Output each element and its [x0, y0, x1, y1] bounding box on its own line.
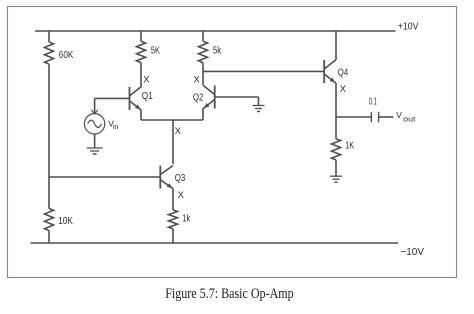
svg-text:Q3: Q3 — [175, 173, 186, 184]
resistor 1k — [169, 210, 191, 229]
resistor 60K — [45, 42, 74, 64]
caption Figure 5.7: Basic Op-Amp — [165, 286, 294, 302]
label 0.1 value of capacitor — [369, 96, 377, 107]
svg-text:5k: 5k — [213, 46, 221, 57]
svg-text:Figure 5.7: Basic Op-Amp: Figure 5.7: Basic Op-Amp — [165, 286, 294, 302]
label Q4 — [338, 68, 349, 79]
wire 5K to Q1 collector — [140, 63, 142, 87]
label Q2 — [193, 92, 204, 103]
wire capacitor to Vout — [379, 116, 394, 118]
svg-text:+10V: +10V — [398, 21, 419, 32]
svg-text:0.1: 0.1 — [369, 96, 377, 107]
transistor Q3 — [160, 166, 173, 189]
ground below Vin — [87, 148, 103, 154]
svg-text:1k: 1k — [182, 213, 190, 224]
svg-text:in: in — [113, 122, 119, 131]
wire Vin to Q1 base — [95, 98, 130, 113]
label Q1 — [142, 91, 153, 102]
wire Q2 base to ground — [215, 97, 259, 106]
ground below 1K — [330, 176, 342, 182]
wire joining Q1 and Q2 emitters — [141, 119, 203, 121]
svg-text:X: X — [193, 74, 200, 85]
node -10V label — [400, 247, 424, 258]
transistor Q2 — [203, 85, 215, 108]
wire from 60K down to 10K with junction to Q3 base — [48, 64, 50, 209]
svg-text:out: out — [403, 114, 415, 123]
wire Q2 emitter down — [202, 108, 204, 120]
label Vout — [396, 110, 415, 124]
transistor Q1 — [130, 87, 142, 110]
wire Q4 emitter node to capacitor — [336, 116, 371, 118]
arrow into source Vin — [91, 110, 97, 114]
ground at Q2 base — [253, 106, 265, 112]
node X at Q2 collector — [193, 74, 200, 85]
label Vin — [108, 118, 118, 131]
resistor 5K — [137, 41, 161, 62]
svg-text:60K: 60K — [59, 50, 74, 61]
svg-text:X: X — [178, 190, 185, 201]
wire 5k/Q2 collector node to Q4 base — [203, 70, 324, 72]
resistor 10K — [45, 209, 74, 231]
wire Q4 emitter down to 1K with junction to output — [335, 83, 337, 139]
node X at Q4 emitter — [340, 84, 347, 95]
wire from +10V rail down to resistor 60K — [48, 31, 50, 42]
wire Q3 emitter to 1k — [172, 189, 174, 210]
svg-text:V: V — [396, 110, 402, 120]
wire +10V rail to resistor 5K — [140, 31, 142, 41]
wire 1k to -10V rail — [172, 229, 174, 243]
wire 10K to -10V rail — [48, 231, 50, 244]
svg-text:X: X — [340, 84, 347, 95]
svg-text:1K: 1K — [345, 141, 354, 152]
svg-text:10K: 10K — [58, 216, 73, 227]
wire Q1 emitter down — [140, 110, 142, 120]
node X at Q3 emitter — [178, 190, 185, 201]
wire Q4 collector to +10V rail — [335, 31, 337, 60]
wire 5k to Q2 collector with junction to Q4 base wire — [202, 63, 204, 85]
wire +10V top supply rail — [35, 30, 396, 32]
svg-text:X: X — [175, 126, 182, 137]
node X at emitter junction — [175, 126, 182, 137]
wire +10V rail to resistor 5k — [202, 31, 204, 41]
svg-text:−10V: −10V — [400, 247, 424, 258]
transistor Q4 — [324, 60, 336, 83]
node +10V label — [398, 21, 419, 32]
capacitor 0.1 — [371, 112, 378, 122]
wire node to Q3 base — [49, 176, 160, 178]
wire emitter node down to Q3 collector — [172, 120, 174, 164]
resistor 1K — [332, 139, 355, 160]
svg-text:X: X — [143, 74, 150, 85]
svg-text:Q1: Q1 — [142, 91, 153, 102]
svg-text:Q2: Q2 — [193, 92, 204, 103]
svg-text:5K: 5K — [151, 46, 160, 57]
wire Vin to ground — [94, 134, 96, 148]
node X at Q1 collector — [143, 74, 150, 85]
svg-text:Q4: Q4 — [338, 68, 349, 79]
source Vin sine voltage source — [84, 114, 104, 134]
wire 1K to ground — [335, 160, 337, 176]
wire -10V bottom supply rail — [31, 242, 399, 244]
label Q3 — [175, 173, 186, 184]
resistor 5k — [199, 41, 222, 62]
